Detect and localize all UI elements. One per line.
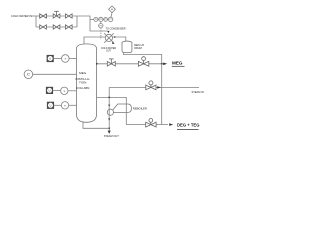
instrument bubble PI3: [104, 18, 108, 22]
reflux drum D-100: [122, 41, 132, 52]
column shell T-100: [77, 44, 97, 122]
arrow steam in tubes: [108, 105, 110, 107]
wire tap to instrument row: [90, 18, 94, 20]
valve steam control: [146, 81, 156, 90]
svg-text:TION: TION: [79, 81, 86, 85]
instrument square TIC2: [46, 87, 53, 94]
reboiler kettle shell: [107, 104, 131, 115]
valve V1 top: [40, 14, 47, 18]
svg-text:OUT: OUT: [106, 51, 111, 53]
wire bubble chain: [94, 18, 114, 20]
condenser E-100: [105, 34, 112, 41]
wire reboiler vapor return: [97, 97, 127, 103]
wire TIC2 link: [53, 90, 61, 92]
wire controller stem: [100, 22, 102, 24]
valve MEG product control: [138, 57, 148, 67]
wire reflux product header: [97, 63, 164, 65]
arrow MEG product: [163, 63, 167, 66]
svg-text:COLD WATER IN: COLD WATER IN: [11, 14, 32, 18]
diamond glyph: [111, 9, 112, 10]
instrument bubble TI3: [61, 102, 68, 109]
svg-text:C: C: [27, 72, 30, 77]
valve V4 bottom: [40, 25, 47, 29]
underline DEG TEG: [177, 129, 199, 131]
arrow DEG product: [169, 123, 173, 126]
wire manifold to condenser: [77, 16, 107, 31]
svg-text:COLUMN: COLUMN: [76, 86, 89, 90]
arrow steam out: [108, 131, 111, 134]
valve DEG product control: [146, 119, 156, 128]
wire TI2 to column: [68, 90, 77, 92]
wire condenser to drum: [113, 37, 126, 41]
arrow cold water onto condenser: [107, 31, 109, 33]
svg-text:COLD WATER: COLD WATER: [101, 47, 116, 50]
wire steam down to reboiler: [108, 87, 110, 133]
node dot steam cross: [108, 97, 110, 99]
svg-text:TI: TI: [63, 91, 65, 93]
wire main vertical header: [161, 64, 163, 125]
svg-text:U: U: [50, 104, 52, 107]
svg-text:REBOILER: REBOILER: [133, 107, 147, 111]
arrow steam flow: [157, 86, 161, 88]
instrument bubble PI1: [94, 17, 98, 21]
wire manifold left vertical: [35, 16, 37, 27]
wire kettle bottoms to DEG: [126, 124, 168, 126]
valve reflux control: [107, 59, 115, 66]
valve V5 bottom: [53, 25, 60, 29]
node dot bottoms junction: [108, 127, 110, 129]
wire column overhead riser: [84, 37, 105, 44]
svg-text:U: U: [49, 58, 51, 61]
node dot at column reflux: [96, 63, 98, 65]
svg-text:DEG + TEG: DEG + TEG: [177, 123, 199, 128]
underline MEG: [172, 65, 185, 67]
wire diamond stem: [111, 13, 112, 17]
wire TI1 to column: [69, 58, 76, 60]
wire steam supply line: [109, 86, 199, 88]
svg-text:U: U: [49, 89, 51, 92]
valve V3 top: [65, 14, 72, 18]
valve V2 top control: [53, 11, 60, 18]
instrument bubble TI2: [61, 87, 68, 94]
instrument circle C: [24, 70, 33, 79]
svg-text:TI: TI: [64, 105, 66, 107]
wire manifold top branch: [36, 15, 77, 17]
bubble marks: [95, 19, 113, 27]
svg-text:STEAM OUT: STEAM OUT: [104, 134, 120, 138]
svg-text:MEG: MEG: [79, 71, 87, 75]
svg-text:STEAM IN: STEAM IN: [192, 90, 204, 94]
wire feed from label: [32, 15, 37, 17]
svg-text:DRUM: DRUM: [134, 47, 142, 50]
instrument bubble PI2: [99, 17, 103, 21]
instrument bubble PI4: [108, 17, 112, 21]
wire drum outlet: [124, 53, 162, 64]
wire manifold bottom branch: [36, 26, 77, 28]
valve V6 bottom: [65, 25, 72, 29]
instrument square TIC3: [47, 102, 54, 109]
instrument square TIC1: [47, 55, 54, 62]
condenser diagonal 1: [104, 33, 114, 42]
logic diamond: [109, 6, 116, 13]
node dot MEG junction: [161, 63, 163, 65]
arrow condenser water out SE: [112, 42, 115, 44]
wire through kettle: [125, 104, 127, 125]
condenser diagonal 2: [104, 33, 114, 43]
signal dashed to condenser: [100, 28, 102, 39]
node dot after condenser: [114, 36, 116, 38]
instrument bubble PIC: [99, 24, 103, 28]
wire C to column: [33, 73, 77, 75]
svg-text:TI: TI: [64, 59, 66, 61]
instrument bubble TI1: [62, 55, 70, 63]
wire TIC3 link: [54, 104, 61, 106]
svg-text:TO CONDENSER: TO CONDENSER: [106, 28, 126, 31]
wire TI3 to column: [69, 104, 77, 106]
arrow condensate: [108, 118, 110, 120]
wire TIC1 link: [54, 58, 62, 60]
wire column bottoms: [83, 122, 109, 128]
svg-text:MEG: MEG: [172, 61, 183, 66]
wire manifold right vertical: [76, 16, 78, 27]
